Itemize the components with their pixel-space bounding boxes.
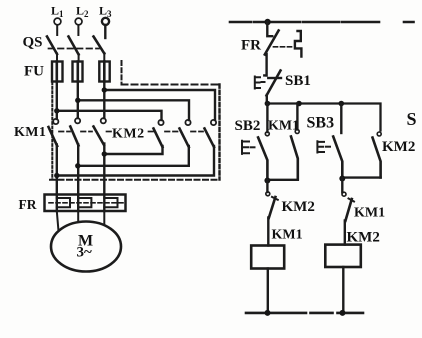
svg-text:L2: L2 [76, 4, 89, 20]
svg-text:L3: L3 [99, 4, 112, 20]
svg-text:FR: FR [19, 197, 37, 212]
svg-text:QS: QS [23, 35, 43, 51]
svg-text:3~: 3~ [77, 245, 93, 261]
svg-text:KM2: KM2 [382, 139, 415, 155]
svg-text:KM1: KM1 [268, 119, 299, 134]
svg-text:KM2: KM2 [347, 230, 380, 246]
svg-text:FU: FU [24, 64, 44, 80]
svg-text:KM1: KM1 [354, 206, 385, 221]
svg-text:KM1: KM1 [14, 125, 46, 140]
svg-text:L1: L1 [51, 4, 64, 20]
svg-text:KM2: KM2 [282, 199, 315, 215]
svg-text:SB2: SB2 [235, 118, 261, 134]
svg-text:KM2: KM2 [112, 127, 145, 142]
svg-text:S: S [407, 109, 417, 129]
svg-text:SB1: SB1 [285, 73, 311, 89]
svg-text:KM1: KM1 [272, 228, 303, 243]
svg-text:FR: FR [241, 38, 261, 54]
svg-text:SB3: SB3 [307, 115, 335, 132]
